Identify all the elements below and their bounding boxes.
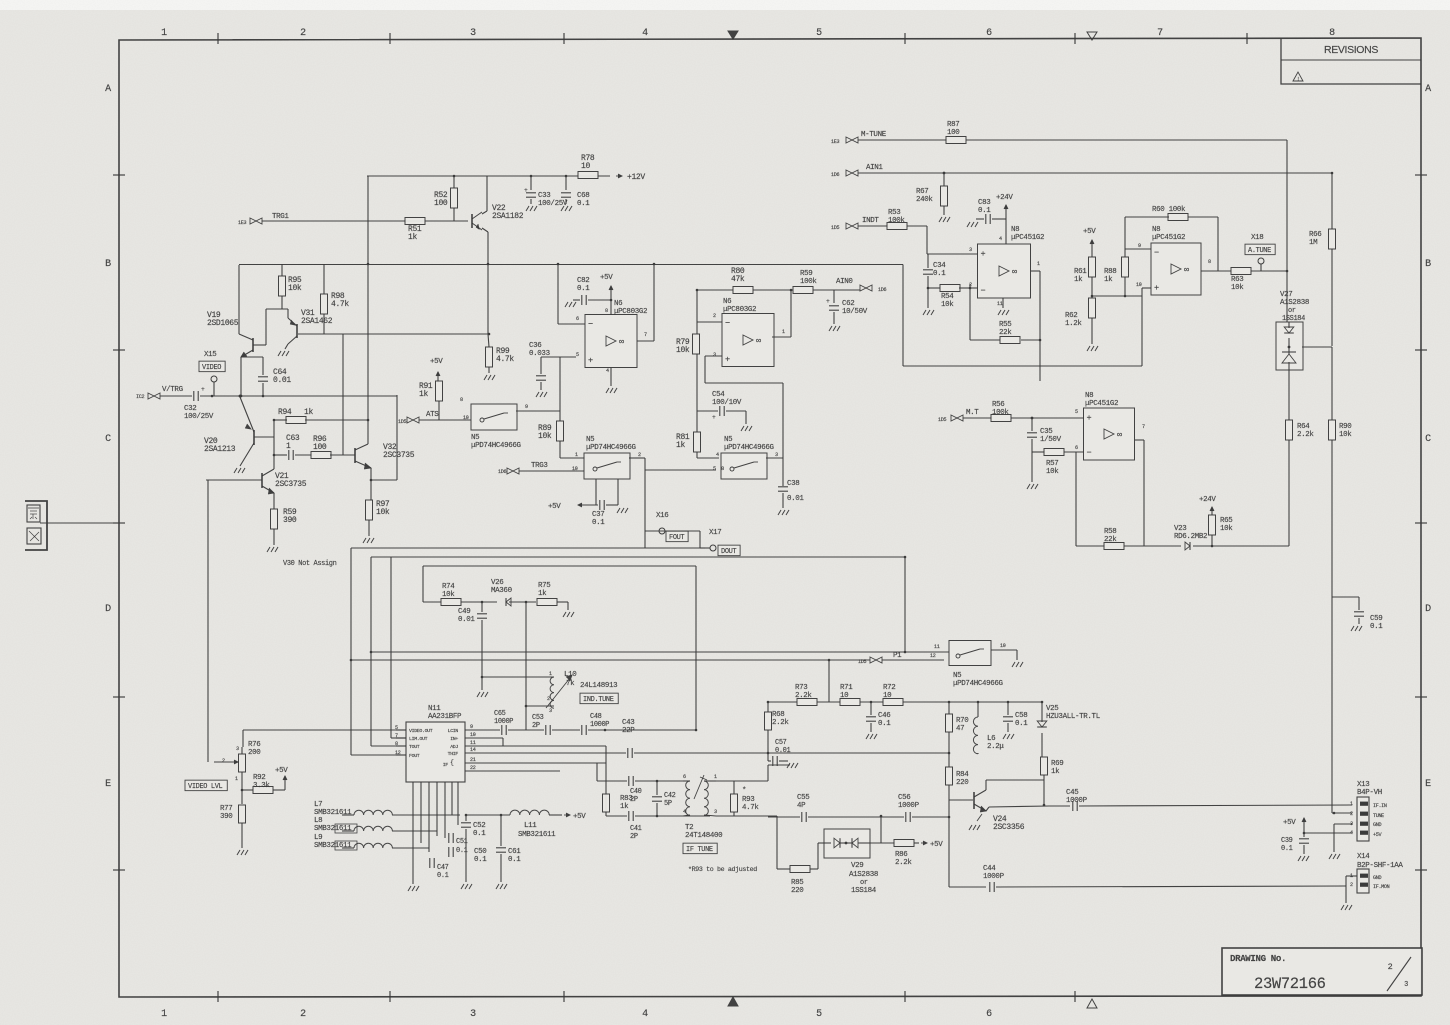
svg-text:IF TUNE: IF TUNE (686, 846, 713, 854)
svg-text:9: 9 (1138, 243, 1141, 249)
svg-text:1k: 1k (419, 390, 428, 399)
svg-text:DOUT: DOUT (721, 548, 736, 556)
svg-text:0.01: 0.01 (458, 616, 475, 624)
svg-text:1/50V: 1/50V (1040, 436, 1062, 444)
svg-text:L6: L6 (987, 735, 995, 743)
svg-text:TRG1: TRG1 (272, 213, 289, 221)
svg-text:3: 3 (470, 1009, 476, 1020)
svg-text:2: 2 (300, 28, 306, 39)
svg-text:R71: R71 (840, 684, 853, 692)
svg-text:TOUT: TOUT (409, 744, 420, 750)
svg-text:C65: C65 (494, 710, 506, 718)
svg-text:C61: C61 (508, 848, 521, 856)
svg-text:2P: 2P (630, 796, 638, 804)
svg-text:0.1: 0.1 (577, 200, 590, 208)
svg-text:100k: 100k (800, 278, 817, 286)
svg-text:N5: N5 (953, 672, 962, 680)
svg-text:3: 3 (549, 708, 552, 714)
svg-text:12: 12 (930, 653, 936, 659)
svg-text:R69: R69 (1051, 760, 1063, 768)
svg-text:or: or (860, 879, 868, 887)
svg-text:+: + (725, 355, 730, 365)
svg-text:N5: N5 (586, 436, 595, 444)
svg-text:6: 6 (986, 28, 992, 39)
svg-text:1k: 1k (1051, 768, 1060, 776)
svg-text:μPD74HC4966G: μPD74HC4966G (471, 442, 522, 450)
svg-text:V30 Not Assign: V30 Not Assign (283, 560, 337, 568)
svg-text:+5V: +5V (930, 841, 943, 849)
svg-text:N5: N5 (724, 436, 733, 444)
svg-text:5: 5 (816, 1009, 822, 1020)
svg-text:2: 2 (1388, 962, 1393, 972)
svg-text:N8: N8 (1152, 226, 1160, 234)
svg-text:TRG3: TRG3 (531, 462, 548, 470)
svg-text:M-TUNE: M-TUNE (861, 131, 887, 139)
svg-text:P1: P1 (893, 652, 902, 660)
svg-text:10: 10 (463, 415, 469, 421)
svg-text:4.7k: 4.7k (331, 300, 349, 309)
svg-text:−: − (1087, 448, 1092, 458)
svg-text:A: A (105, 84, 111, 95)
svg-text:11: 11 (997, 301, 1003, 307)
svg-text:10k: 10k (288, 284, 302, 293)
svg-text:1M: 1M (1309, 239, 1318, 247)
svg-text:2SD1065: 2SD1065 (207, 319, 239, 328)
svg-text:2SC3735: 2SC3735 (383, 451, 415, 460)
svg-text:2SC3356: 2SC3356 (993, 823, 1025, 832)
svg-text:V29: V29 (851, 862, 863, 870)
svg-text:μPC451G2: μPC451G2 (1085, 400, 1118, 408)
svg-text:4: 4 (606, 368, 609, 374)
svg-text:C42: C42 (664, 792, 676, 800)
svg-text:∞: ∞ (756, 336, 761, 346)
svg-text:R62: R62 (1065, 312, 1077, 320)
svg-text:C43: C43 (622, 719, 635, 727)
svg-text:GND: GND (1373, 822, 1381, 828)
svg-text:1D5: 1D5 (398, 419, 406, 425)
svg-text:C38: C38 (787, 480, 799, 488)
svg-text:THIF: THIF (448, 751, 459, 757)
svg-text:+: + (588, 356, 593, 366)
svg-text:R72: R72 (883, 684, 895, 692)
svg-text:C50: C50 (474, 848, 487, 856)
svg-text:100: 100 (313, 443, 327, 452)
svg-text:3: 3 (969, 247, 972, 253)
svg-text:DRAWING No.: DRAWING No. (1230, 953, 1286, 964)
svg-text:*: * (742, 787, 746, 795)
svg-text:100k: 100k (888, 217, 905, 225)
svg-text:L9: L9 (314, 834, 322, 842)
svg-text:SMB321611: SMB321611 (314, 842, 352, 850)
svg-text:6: 6 (986, 1009, 992, 1020)
svg-text:ATS: ATS (426, 411, 439, 419)
svg-text:1D5: 1D5 (831, 225, 839, 231)
svg-text:+5V: +5V (430, 358, 443, 366)
svg-text:8: 8 (1208, 259, 1211, 265)
svg-text:10/50V: 10/50V (842, 308, 868, 316)
svg-text:{: { (450, 759, 454, 766)
svg-text:R94: R94 (278, 408, 292, 417)
svg-text:100/25V: 100/25V (184, 413, 214, 421)
svg-text:N5: N5 (471, 434, 480, 442)
svg-text:A: A (1425, 84, 1431, 95)
svg-text:X13: X13 (1357, 781, 1370, 789)
svg-text:X16: X16 (656, 512, 668, 520)
svg-text:+: + (1087, 413, 1092, 423)
svg-text:C33: C33 (538, 192, 551, 200)
svg-text:7: 7 (1142, 424, 1145, 430)
svg-text:L10: L10 (564, 671, 577, 679)
svg-text:∞: ∞ (1117, 430, 1122, 440)
svg-text:5 8: 5 8 (713, 466, 724, 472)
svg-text:6: 6 (1075, 445, 1078, 451)
svg-text:C57: C57 (775, 739, 787, 747)
svg-text:+: + (201, 386, 205, 393)
svg-text:C58: C58 (1015, 712, 1027, 720)
svg-text:μPC451G2: μPC451G2 (1011, 234, 1044, 242)
svg-text:100/10V: 100/10V (712, 399, 742, 407)
svg-text:10k: 10k (1220, 525, 1233, 533)
svg-text:+5V: +5V (548, 503, 561, 511)
svg-text:2: 2 (547, 696, 550, 702)
svg-text:L8: L8 (314, 817, 322, 825)
svg-text:1D5: 1D5 (938, 417, 946, 423)
svg-text:R92: R92 (253, 774, 265, 782)
svg-text:R74: R74 (442, 583, 455, 591)
svg-text:1k: 1k (304, 408, 313, 417)
svg-text:10: 10 (883, 692, 892, 700)
svg-text:C59: C59 (1370, 615, 1382, 623)
svg-text:C36: C36 (529, 342, 541, 350)
svg-text:4.7k: 4.7k (742, 804, 759, 812)
svg-text:10k: 10k (376, 508, 390, 517)
svg-text:22: 22 (470, 765, 476, 771)
svg-text:R84: R84 (956, 771, 969, 779)
svg-text:10k: 10k (1046, 468, 1059, 476)
svg-text:μPD74HC4966G: μPD74HC4966G (724, 444, 775, 452)
svg-text:1D6: 1D6 (831, 172, 839, 178)
svg-text:1k: 1k (676, 441, 685, 450)
svg-text:C56: C56 (898, 794, 910, 802)
svg-text:22k: 22k (999, 329, 1012, 337)
svg-text:11: 11 (470, 740, 476, 746)
svg-text:2SA1462: 2SA1462 (301, 317, 333, 326)
svg-text:V23: V23 (1174, 525, 1187, 533)
svg-text:3: 3 (714, 809, 717, 815)
svg-text:C46: C46 (878, 712, 890, 720)
svg-text:C54: C54 (712, 391, 725, 399)
svg-text:C37: C37 (592, 511, 604, 519)
svg-text:AIN0: AIN0 (836, 278, 853, 286)
svg-text:C47: C47 (437, 864, 449, 872)
svg-text:R65: R65 (1220, 517, 1233, 525)
svg-text:1: 1 (161, 1009, 167, 1020)
svg-text:μPC803G2: μPC803G2 (723, 306, 756, 314)
svg-text:∞: ∞ (1184, 265, 1189, 275)
svg-text:5P: 5P (664, 800, 672, 808)
svg-text:X15: X15 (204, 351, 217, 359)
svg-text:1000P: 1000P (494, 718, 513, 726)
svg-text:LCIN: LCIN (448, 728, 459, 734)
svg-text:2P: 2P (532, 722, 540, 730)
svg-text:10k: 10k (941, 301, 954, 309)
svg-text:−: − (588, 320, 593, 330)
svg-text:1k: 1k (620, 803, 629, 811)
svg-text:−: − (1154, 248, 1159, 258)
svg-text:47k: 47k (731, 275, 745, 284)
svg-text:+24V: +24V (1199, 496, 1216, 504)
svg-text:R57: R57 (1046, 460, 1058, 468)
svg-text:C52: C52 (473, 822, 485, 830)
svg-text:*R93 to be adjusted: *R93 to be adjusted (688, 865, 757, 873)
svg-text:2: 2 (1350, 811, 1353, 817)
svg-text:R56: R56 (992, 401, 1004, 409)
svg-text:14: 14 (470, 747, 476, 753)
svg-text:4P: 4P (797, 802, 806, 810)
svg-text:R60 100k: R60 100k (1152, 206, 1186, 214)
svg-text:0.1: 0.1 (577, 285, 590, 293)
svg-text:2: 2 (300, 1009, 306, 1020)
svg-text:C44: C44 (983, 865, 996, 873)
svg-text:10k: 10k (1231, 284, 1244, 292)
svg-text:R85: R85 (791, 879, 804, 887)
svg-text:3: 3 (470, 28, 476, 39)
svg-text:+5V: +5V (1283, 819, 1296, 827)
svg-text:D: D (1425, 604, 1431, 615)
svg-text:V/TRG: V/TRG (162, 386, 184, 394)
svg-text:22k: 22k (1104, 536, 1117, 544)
svg-text:1k: 1k (408, 233, 417, 242)
svg-text:1SS184: 1SS184 (1282, 315, 1305, 323)
svg-text:B4P-VH: B4P-VH (1357, 789, 1382, 797)
svg-text:2.2μ: 2.2μ (987, 743, 1004, 751)
svg-text:R73: R73 (795, 684, 808, 692)
svg-text:RD6.2MB2: RD6.2MB2 (1174, 533, 1207, 541)
svg-text:2P: 2P (630, 833, 638, 841)
svg-text:N6: N6 (614, 300, 622, 308)
svg-text:24T148400: 24T148400 (685, 832, 723, 840)
svg-text:1000P: 1000P (983, 873, 1005, 881)
svg-text:SMB321611: SMB321611 (314, 825, 352, 833)
svg-text:N6: N6 (723, 298, 731, 306)
svg-text:10k: 10k (676, 346, 690, 355)
svg-text:1E3: 1E3 (831, 139, 839, 145)
svg-text:FOUT: FOUT (669, 534, 684, 542)
svg-text:0.01: 0.01 (787, 495, 804, 503)
svg-text:9: 9 (470, 724, 473, 730)
svg-text:10: 10 (1000, 643, 1006, 649)
svg-text:−: − (981, 286, 986, 296)
svg-text:C83: C83 (978, 199, 991, 207)
svg-text:C39: C39 (1281, 837, 1293, 845)
svg-text:IF.IN: IF.IN (1373, 803, 1387, 809)
svg-text:IND.TUNE: IND.TUNE (583, 696, 614, 704)
svg-text:100: 100 (434, 199, 448, 208)
svg-text:0.01: 0.01 (273, 376, 291, 385)
svg-text:A1S2838: A1S2838 (1280, 299, 1309, 307)
svg-text:1000P: 1000P (590, 721, 609, 729)
svg-text:AA231BFP: AA231BFP (428, 713, 462, 721)
svg-text:0.1: 0.1 (437, 872, 449, 880)
svg-text:0.1: 0.1 (933, 270, 946, 278)
svg-text:MA360: MA360 (491, 587, 513, 595)
svg-text:R53: R53 (888, 209, 901, 217)
svg-text:+5V: +5V (600, 274, 613, 282)
svg-text:C32: C32 (184, 405, 196, 413)
svg-text:μPC451G2: μPC451G2 (1152, 234, 1185, 242)
svg-text:C48: C48 (590, 713, 602, 721)
svg-text:X18: X18 (1251, 234, 1263, 242)
svg-text:R93: R93 (742, 796, 755, 804)
svg-text:!: ! (1297, 77, 1300, 83)
svg-text:M.T: M.T (966, 409, 979, 417)
svg-text:0.1: 0.1 (473, 830, 486, 838)
svg-text:E: E (1425, 779, 1431, 790)
svg-text:8: 8 (460, 397, 463, 403)
svg-text:5: 5 (576, 352, 579, 358)
svg-text:C35: C35 (1040, 428, 1053, 436)
svg-text:10k: 10k (538, 432, 552, 441)
svg-text:IC2: IC2 (136, 394, 144, 400)
svg-text:+: + (712, 414, 716, 421)
svg-text:VIDEO.OUT: VIDEO.OUT (409, 728, 433, 734)
svg-text:10k: 10k (1339, 431, 1352, 439)
svg-text:C82: C82 (577, 277, 589, 285)
svg-text:SMB321611: SMB321611 (518, 831, 556, 839)
svg-text:2.2k: 2.2k (772, 719, 789, 727)
svg-text:A1S2838: A1S2838 (849, 871, 878, 879)
svg-text:0.1: 0.1 (508, 856, 521, 864)
svg-text:10: 10 (581, 162, 590, 171)
svg-text:IF: IF (443, 762, 449, 768)
svg-text:C34: C34 (933, 262, 946, 270)
svg-text:R63: R63 (1231, 276, 1244, 284)
svg-text:2SA1182: 2SA1182 (492, 212, 524, 221)
svg-text:+: + (524, 187, 528, 194)
svg-text:μPC803G2: μPC803G2 (614, 308, 647, 316)
svg-text:2: 2 (713, 313, 716, 319)
svg-text:VIDEO LVL: VIDEO LVL (188, 783, 223, 791)
svg-text:0.1: 0.1 (1015, 720, 1028, 728)
svg-text:R59: R59 (800, 270, 812, 278)
svg-text:1D6: 1D6 (878, 287, 886, 293)
svg-text:200: 200 (248, 749, 261, 757)
svg-text:D: D (105, 604, 111, 615)
svg-text:0.1: 0.1 (474, 856, 487, 864)
svg-text:0.033: 0.033 (529, 350, 551, 358)
svg-text:μPD74HC4966G: μPD74HC4966G (953, 680, 1004, 688)
svg-text:N8: N8 (1085, 392, 1093, 400)
svg-text:11: 11 (934, 644, 940, 650)
svg-text:3.3k: 3.3k (253, 782, 270, 790)
svg-text:R75: R75 (538, 582, 551, 590)
svg-text:R77: R77 (220, 805, 232, 813)
svg-text:2.2k: 2.2k (795, 692, 812, 700)
svg-text:X14: X14 (1357, 853, 1370, 861)
svg-text:24L148913: 24L148913 (580, 682, 618, 690)
svg-text:4.7k: 4.7k (496, 355, 514, 364)
svg-text:∞: ∞ (619, 337, 624, 347)
svg-text:9: 9 (525, 404, 528, 410)
svg-text:0.1: 0.1 (456, 847, 468, 855)
svg-text:1: 1 (286, 442, 291, 451)
svg-text:2.2k: 2.2k (1297, 431, 1314, 439)
svg-text:4: 4 (642, 28, 648, 39)
svg-text:B: B (1425, 259, 1431, 270)
svg-text:FOUT: FOUT (409, 753, 420, 759)
svg-text:47: 47 (956, 725, 964, 733)
svg-text:5: 5 (816, 28, 822, 39)
svg-text:or: or (1288, 307, 1296, 315)
svg-text:R61: R61 (1074, 268, 1087, 276)
svg-text:10: 10 (840, 692, 849, 700)
svg-text:R54: R54 (941, 293, 954, 301)
svg-text:3: 3 (236, 746, 239, 752)
svg-text:E: E (105, 779, 111, 790)
svg-text:R67: R67 (916, 188, 928, 196)
svg-text:23W72166: 23W72166 (1254, 975, 1326, 993)
svg-text:B: B (105, 259, 111, 270)
svg-text:N8: N8 (1011, 226, 1019, 234)
svg-text:1000P: 1000P (1066, 797, 1088, 805)
svg-text:1: 1 (1037, 261, 1040, 267)
svg-text:V27: V27 (1280, 291, 1292, 299)
svg-text:+24V: +24V (996, 194, 1013, 202)
svg-text:TUNE: TUNE (1373, 813, 1384, 819)
svg-text:6: 6 (576, 316, 579, 322)
svg-text:3: 3 (775, 452, 778, 458)
svg-text:0.1: 0.1 (978, 207, 991, 215)
svg-text:X17: X17 (709, 529, 721, 537)
svg-text:100k: 100k (992, 409, 1009, 417)
svg-text:1: 1 (1350, 801, 1353, 807)
svg-text:+: + (826, 298, 830, 305)
svg-text:R58: R58 (1104, 528, 1116, 536)
svg-text:1.2k: 1.2k (1065, 320, 1082, 328)
svg-text:2: 2 (638, 452, 641, 458)
svg-text:220: 220 (791, 887, 804, 895)
svg-text:1: 1 (782, 329, 785, 335)
svg-text:R88: R88 (1104, 268, 1116, 276)
svg-text:R68: R68 (772, 711, 784, 719)
svg-text:HZU3ALL-TR.TL: HZU3ALL-TR.TL (1046, 713, 1101, 721)
svg-text:+5V: +5V (573, 813, 586, 821)
svg-text:2: 2 (1350, 882, 1353, 888)
svg-text:8: 8 (605, 308, 608, 314)
svg-text:22P: 22P (622, 727, 635, 735)
svg-text:0.1: 0.1 (878, 720, 891, 728)
svg-text:2SC3735: 2SC3735 (275, 480, 307, 489)
svg-text:4: 4 (683, 809, 686, 815)
svg-text:C: C (1425, 434, 1431, 445)
svg-text:1: 1 (714, 774, 717, 780)
svg-text:3: 3 (1404, 981, 1408, 989)
svg-text:N11: N11 (428, 705, 441, 713)
svg-text:REVISIONS: REVISIONS (1324, 44, 1378, 56)
svg-text:GND: GND (1373, 875, 1381, 881)
svg-text:C55: C55 (797, 794, 810, 802)
svg-text:2.2k: 2.2k (895, 859, 912, 867)
svg-text:C45: C45 (1066, 789, 1079, 797)
svg-text:C62: C62 (842, 300, 854, 308)
svg-text:C: C (105, 434, 111, 445)
svg-text:2SA1213: 2SA1213 (204, 445, 236, 454)
svg-text:1k: 1k (1104, 276, 1113, 284)
svg-text:−: − (725, 319, 730, 329)
svg-text:1000P: 1000P (898, 802, 920, 810)
svg-text:+5V: +5V (1373, 832, 1382, 838)
svg-text:IN+: IN+ (450, 736, 458, 742)
